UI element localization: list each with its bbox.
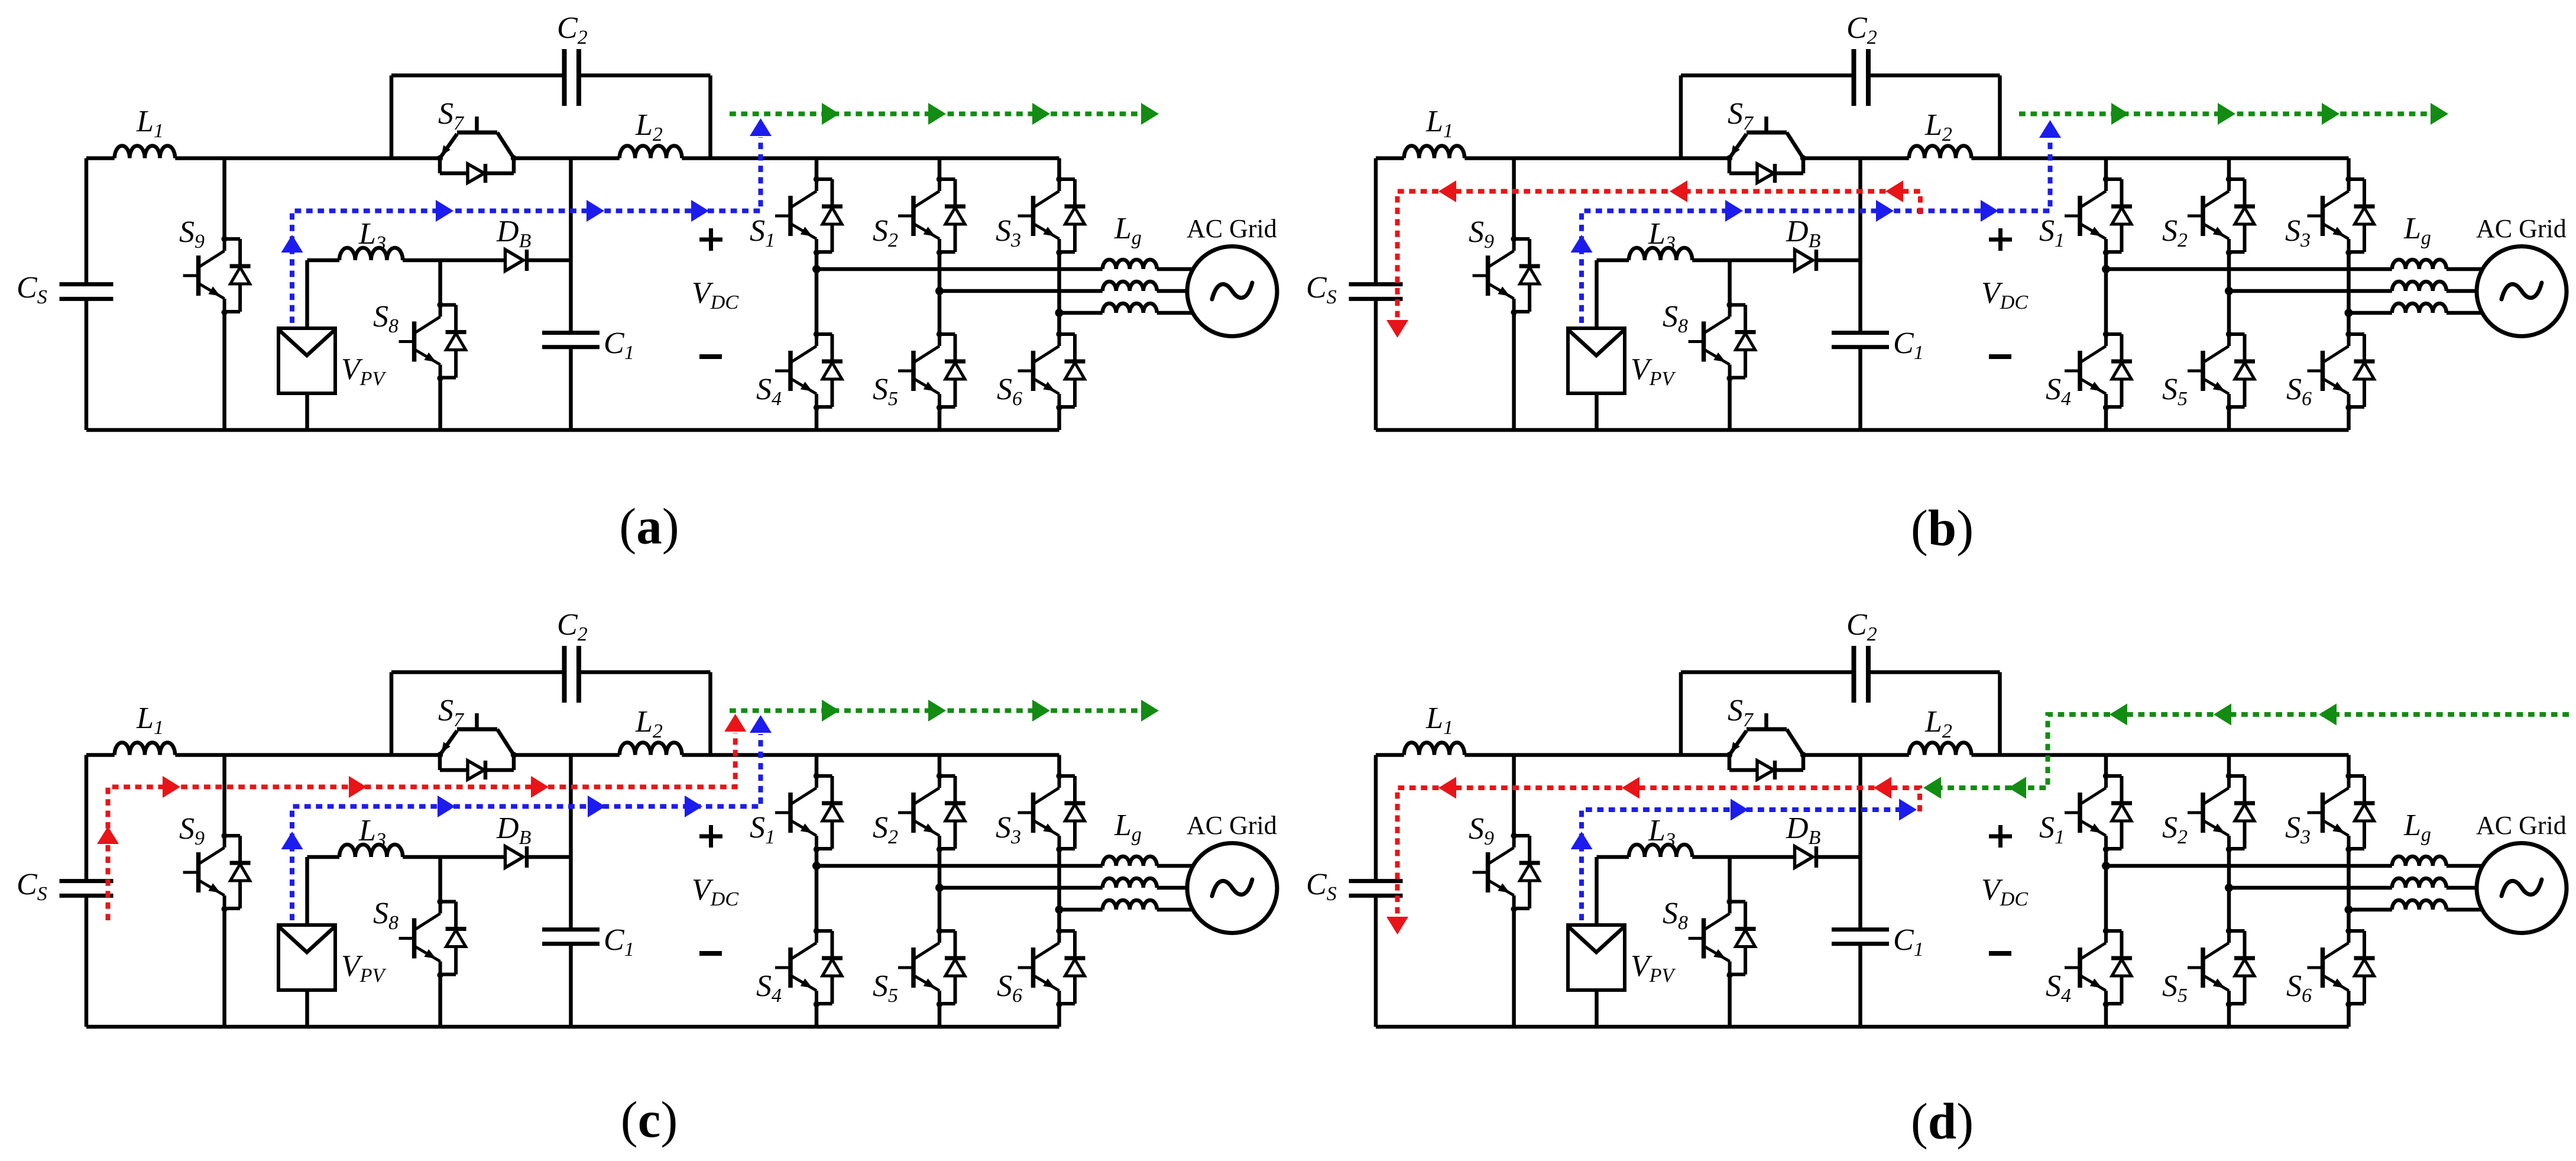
wire: S6 emitter lead (a) (1057, 408, 1061, 430)
wire: S3 collector lead (b) (2347, 159, 2351, 180)
wire: phase node to S5 (c) (938, 888, 942, 931)
wire: C2 loop top-right (c) (579, 670, 711, 674)
transistor S6 (a) (1018, 331, 1086, 410)
wire: S9 emitter lead (a) (222, 312, 226, 430)
wire: S4 emitter lead (d) (2104, 1004, 2108, 1027)
wire: C2 loop left leg (c) (390, 672, 394, 755)
label minus (b) (1989, 354, 2011, 359)
wire: phase node to S4 (a) (815, 269, 819, 334)
node: phase junction S2/S5 (b) (2225, 287, 2233, 295)
wire: L3 to DB (c) (403, 855, 505, 859)
wire: PV bottom lead (a) (305, 393, 309, 430)
wire: top rail L2 to bridge (d) (1971, 753, 2348, 757)
node: phase junction S2/S5 (a) (935, 287, 944, 295)
PV source VPV (d) (1568, 925, 1625, 990)
wire: C1 branch upper (b) (1858, 159, 1862, 333)
wire: S5 emitter lead (d) (2227, 1004, 2231, 1027)
wire: top rail L2 to bridge (b) (1971, 156, 2348, 160)
wire: top rail left segment (b) (1376, 156, 1404, 160)
wire: S3 emitter to phase node (d) (2347, 849, 2351, 910)
wire: phase node to S6 (a) (1057, 313, 1061, 334)
PV source VPV (b) (1568, 328, 1625, 393)
node: phase junction S1/S4 (a) (812, 265, 821, 273)
wire: phase node to S5 (a) (938, 291, 942, 334)
wire: phase line 2 (c) (939, 886, 1103, 890)
wire: top rail left segment (a) (86, 156, 115, 160)
wire: phase line 1 to grid (b) (2447, 267, 2496, 271)
wire: C1 branch upper (a) (569, 159, 573, 333)
wire: S1 collector lead (a) (815, 159, 819, 180)
wire: S9 collector lead (d) (1512, 755, 1516, 836)
wire: S3 collector lead (c) (1057, 755, 1061, 777)
current path (red): CS discharge loop (c) (97, 714, 746, 920)
node: phase junction S1/S4 (c) (812, 862, 821, 870)
wire: S6 emitter lead (c) (1057, 1004, 1061, 1027)
inductor Lg phase 2 (a) (1103, 282, 1157, 291)
inductor L2 (c) (620, 743, 682, 755)
transistor S6 (d) (2308, 928, 2375, 1007)
current path (red): CS charge loop (b) (1386, 180, 1920, 338)
wire: S3 emitter to phase node (a) (1057, 253, 1061, 313)
inductor Lg phase 3 (d) (2392, 900, 2447, 910)
wire: left branch lower (a) (85, 299, 89, 430)
transistor S7 with antiparallel diode (c) (437, 713, 517, 780)
wire: PV to L3 corner (d) (1597, 857, 1629, 925)
inductor Lg phase 3 (a) (1103, 303, 1157, 313)
wire: top rail L1 to S7 (c) (175, 753, 440, 757)
wire: phase node to S6 (b) (2347, 313, 2351, 334)
transistor S1 (b) (2065, 176, 2132, 256)
capacitor C2 (d) (1854, 646, 1869, 703)
diode DB (b) (1795, 250, 1817, 271)
wire: C2 loop top-right (b) (1868, 73, 2000, 77)
transistor S8 (c) (399, 898, 466, 978)
transistor S7 with antiparallel diode (a) (437, 117, 517, 183)
diode DB (a) (506, 250, 527, 271)
wire: S9 collector lead (b) (1512, 159, 1516, 240)
node: phase junction S3/S6 (c) (1055, 905, 1064, 914)
wire: C2 loop top-left (c) (391, 670, 565, 674)
wire: S3 emitter to phase node (c) (1057, 849, 1061, 910)
wire: C1 branch upper (c) (569, 755, 573, 930)
wire: L3 to DB (a) (403, 258, 505, 263)
wire: phase line 3 to grid (d) (2447, 908, 2496, 912)
wire: top rail S7 to L2 (d) (1803, 753, 1909, 757)
AC grid source (b) (2477, 247, 2567, 337)
inductor L3 (b) (1629, 248, 1692, 260)
svg-text:AC Grid: AC Grid (1187, 811, 1277, 840)
wire: phase line 3 to grid (c) (1157, 908, 1206, 912)
inductor L3 (d) (1629, 845, 1692, 857)
transistor S8 (a) (399, 302, 466, 381)
wire: S9 emitter lead (c) (222, 909, 226, 1027)
node: phase junction S1/S4 (d) (2102, 862, 2110, 870)
label plus (d) (1989, 825, 2012, 848)
wire: phase line 3 (c) (1059, 908, 1103, 912)
transistor S9 (d) (1473, 833, 1540, 912)
node: phase junction S3/S6 (d) (2345, 905, 2353, 914)
capacitor CS (c) (60, 881, 114, 896)
transistor S2 (c) (898, 773, 965, 852)
wire: S3 collector lead (a) (1057, 159, 1061, 180)
wire: S8 emitter lead (a) (438, 379, 442, 431)
wire: top rail L2 to bridge (c) (682, 753, 1059, 757)
svg-text:AC Grid: AC Grid (1187, 214, 1277, 243)
transistor S3 (c) (1018, 773, 1086, 852)
transistor S7 with antiparallel diode (d) (1726, 713, 1806, 780)
diode DB (d) (1795, 846, 1817, 868)
wire: top rail L1 to S7 (d) (1464, 753, 1729, 757)
wire: phase line 1 to grid (a) (1157, 267, 1206, 271)
transistor S7 with antiparallel diode (b) (1726, 117, 1806, 183)
wire: phase line 1 to grid (d) (2447, 864, 2496, 868)
transistor S9 (a) (183, 236, 251, 315)
wire: top rail S7 to L2 (a) (514, 156, 620, 160)
wire: bottom rail (d) (1376, 1025, 2349, 1029)
wire: left branch lower (d) (1374, 895, 1378, 1027)
wire: phase line 3 to grid (a) (1157, 311, 1206, 315)
PV source VPV (a) (278, 328, 335, 393)
wire: phase line 2 to grid (a) (1157, 289, 1206, 293)
wire: bottom rail (b) (1376, 428, 2349, 432)
capacitor C1 (b) (1832, 333, 1889, 347)
transistor S5 (c) (898, 928, 965, 1007)
wire: S1 emitter to phase node (c) (815, 849, 819, 866)
wire: S2 collector lead (d) (2227, 755, 2231, 777)
wire: bottom rail (c) (86, 1025, 1059, 1029)
wire: top rail L1 to S7 (a) (175, 156, 440, 160)
wire: PV to L3 corner (b) (1597, 260, 1629, 328)
current path (blue): PV boost loop (d) (1571, 799, 1917, 921)
label minus (c) (699, 951, 722, 956)
transistor S4 (d) (2065, 928, 2132, 1007)
wire: DB to C1 node (a) (527, 258, 571, 263)
transistor S8 (d) (1689, 898, 1756, 978)
wire: PV bottom lead (d) (1595, 990, 1599, 1027)
inductor Lg phase 1 (a) (1103, 260, 1157, 269)
wire: C2 loop right leg (c) (708, 672, 712, 755)
wire: C1 branch lower (a) (569, 347, 573, 430)
wire: phase line 3 (d) (2349, 908, 2392, 912)
wire: phase line 1 (c) (816, 864, 1103, 868)
wire: left branch upper (d) (1374, 755, 1378, 881)
transistor S5 (a) (898, 331, 965, 410)
wire: C2 loop right leg (d) (1998, 672, 2002, 755)
current path (blue): PV boost loop (a) (281, 118, 772, 323)
inductor L2 (b) (1909, 146, 1972, 159)
transistor S3 (b) (2308, 176, 2375, 256)
label plus (b) (1989, 228, 2012, 251)
current path (green): from AC grid (d) (1923, 704, 2569, 799)
transistor S2 (b) (2188, 176, 2255, 256)
wire: phase line 2 to grid (c) (1157, 886, 1206, 890)
label plus (c) (699, 825, 722, 848)
wire: top rail S7 to L2 (c) (514, 753, 620, 757)
wire: S2 emitter to phase node (b) (2227, 253, 2231, 291)
wire: top rail S7 to L2 (b) (1803, 156, 1909, 160)
wire: S9 emitter lead (d) (1512, 909, 1516, 1027)
inductor Lg phase 2 (c) (1103, 878, 1157, 888)
wire: C1 branch upper (d) (1858, 755, 1862, 930)
wire: S6 emitter lead (d) (2347, 1004, 2351, 1027)
wire: C2 loop left leg (b) (1679, 76, 1683, 159)
wire: phase node to S4 (b) (2104, 269, 2108, 334)
wire: phase line 3 (a) (1059, 311, 1103, 315)
wire: PV to L3 corner (a) (307, 260, 340, 328)
wire: S8 emitter lead (b) (1728, 379, 1732, 431)
inductor Lg phase 2 (d) (2392, 878, 2447, 888)
wire: phase line 1 (d) (2106, 864, 2392, 868)
AC grid source (a) (1187, 247, 1277, 337)
wire: S9 collector lead (a) (222, 159, 226, 240)
svg-text:(d): (d) (1911, 1092, 1974, 1150)
transistor S1 (c) (775, 773, 843, 852)
capacitor C2 (a) (565, 49, 579, 106)
wire: S5 emitter lead (b) (2227, 408, 2231, 430)
node: phase junction S1/S4 (b) (2102, 265, 2110, 273)
inductor Lg phase 2 (b) (2392, 282, 2447, 291)
wire: phase line 2 to grid (d) (2447, 886, 2496, 890)
wire: PV to L3 corner (c) (307, 857, 340, 925)
wire: phase node to S4 (c) (815, 866, 819, 931)
wire: C2 loop top-right (a) (579, 73, 711, 77)
transistor S3 (a) (1018, 176, 1086, 256)
wire: S2 collector lead (c) (938, 755, 942, 777)
transistor S4 (a) (775, 331, 843, 410)
wire: S4 emitter lead (b) (2104, 408, 2108, 430)
diode DB (c) (506, 846, 527, 868)
wire: phase line 1 to grid (c) (1157, 864, 1206, 868)
inductor Lg phase 3 (b) (2392, 303, 2447, 313)
current path (blue): PV boost loop (c) (281, 715, 772, 920)
transistor S9 (b) (1473, 236, 1540, 315)
wire: S1 emitter to phase node (d) (2104, 849, 2108, 866)
wire: phase line 3 (b) (2349, 311, 2392, 315)
transistor S1 (d) (2065, 773, 2132, 852)
node: phase junction S3/S6 (b) (2345, 309, 2353, 317)
inductor Lg phase 1 (b) (2392, 260, 2447, 269)
current path (green): to AC grid (c) (730, 700, 1159, 722)
wire: phase line 2 (a) (939, 289, 1103, 293)
wire: S1 collector lead (c) (815, 755, 819, 777)
wire: left branch upper (a) (85, 159, 89, 284)
svg-text:AC Grid: AC Grid (2476, 811, 2567, 840)
wire: phase node to S6 (c) (1057, 910, 1061, 931)
inductor L3 (a) (339, 248, 403, 260)
wire: L3 to DB (d) (1692, 855, 1794, 859)
wire: top rail left segment (d) (1376, 753, 1404, 757)
wire: C2 loop left leg (d) (1679, 672, 1683, 755)
current path (blue): PV boost loop (b) (1571, 120, 2062, 323)
wire: C2 loop left leg (a) (390, 76, 394, 159)
label minus (d) (1989, 951, 2011, 956)
svg-text:(a): (a) (619, 497, 679, 555)
inductor L2 (a) (620, 145, 682, 158)
wire: PV bottom lead (c) (305, 990, 309, 1027)
wire: S1 emitter to phase node (a) (815, 253, 819, 269)
current path (green): to AC grid (b) (2019, 103, 2448, 125)
wire: S3 collector lead (d) (2347, 755, 2351, 777)
wire: S2 emitter to phase node (c) (938, 849, 942, 888)
wire: PV bottom lead (b) (1595, 393, 1599, 430)
wire: S8 emitter lead (c) (438, 975, 442, 1027)
wire: top rail left segment (c) (86, 753, 115, 757)
wire: phase node to S6 (d) (2347, 910, 2351, 931)
wire: C1 branch lower (b) (1858, 347, 1862, 430)
transistor S6 (b) (2308, 331, 2375, 410)
wire: phase line 2 (d) (2229, 886, 2392, 890)
wire: left branch lower (c) (85, 895, 89, 1027)
wire: L3 to DB (b) (1692, 258, 1794, 263)
wire: DB to C1 node (d) (1816, 855, 1861, 859)
svg-text:AC Grid: AC Grid (2476, 214, 2567, 243)
wire: phase line 2 (b) (2229, 289, 2392, 293)
wire: C2 loop top-left (d) (1681, 670, 1854, 674)
wire: C2 loop top-left (a) (391, 73, 565, 77)
wire: bottom rail (a) (86, 428, 1059, 432)
AC grid source (d) (2477, 843, 2567, 933)
wire: left branch lower (b) (1374, 299, 1378, 430)
wire: S2 collector lead (a) (938, 159, 942, 180)
wire: S9 collector lead (c) (222, 755, 226, 836)
wire: S2 emitter to phase node (d) (2227, 849, 2231, 888)
wire: C2 loop top-left (b) (1681, 73, 1854, 77)
inductor Lg phase 1 (d) (2392, 856, 2447, 866)
node: phase junction S2/S5 (c) (935, 884, 944, 892)
PV source VPV (c) (278, 925, 335, 990)
wire: phase line 3 to grid (b) (2447, 311, 2496, 315)
wire: DB to C1 node (c) (527, 855, 571, 859)
wire: phase line 1 (a) (816, 267, 1103, 271)
svg-text:(c): (c) (621, 1091, 678, 1148)
wire: S8 collector lead (b) (1728, 260, 1732, 305)
inductor L3 (c) (339, 845, 403, 857)
label plus (a) (699, 228, 722, 251)
transistor S4 (c) (775, 928, 843, 1007)
svg-text:(b): (b) (1911, 499, 1974, 557)
wire: left branch upper (c) (85, 755, 89, 881)
wire: phase line 2 to grid (b) (2447, 289, 2496, 293)
capacitor C1 (d) (1832, 930, 1889, 944)
AC grid source (c) (1187, 843, 1277, 933)
transistor S3 (d) (2308, 773, 2375, 852)
wire: top rail L1 to S7 (b) (1464, 156, 1729, 160)
wire: S4 emitter lead (a) (815, 408, 819, 430)
wire: DB to C1 node (b) (1816, 258, 1861, 263)
wire: phase node to S5 (d) (2227, 888, 2231, 931)
wire: S4 emitter lead (c) (815, 1004, 819, 1027)
wire: C2 loop right leg (a) (708, 76, 712, 159)
wire: C2 loop top-right (d) (1868, 670, 2000, 674)
wire: S9 emitter lead (b) (1512, 312, 1516, 430)
wire: S3 emitter to phase node (b) (2347, 253, 2351, 313)
wire: S1 collector lead (b) (2104, 159, 2108, 180)
wire: C1 branch lower (d) (1858, 944, 1862, 1027)
transistor S8 (b) (1689, 302, 1756, 381)
inductor L1 (c) (115, 743, 175, 755)
wire: phase node to S4 (d) (2104, 866, 2108, 931)
capacitor C2 (b) (1854, 49, 1869, 106)
capacitor CS (b) (1349, 284, 1403, 299)
wire: S6 emitter lead (b) (2347, 408, 2351, 430)
transistor S5 (b) (2188, 331, 2255, 410)
wire: S5 emitter lead (c) (938, 1004, 942, 1027)
current path (red): to CS loop (d) (1386, 777, 1920, 935)
transistor S4 (b) (2065, 331, 2132, 410)
transistor S2 (a) (898, 176, 965, 256)
node: phase junction S2/S5 (d) (2225, 884, 2233, 892)
wire: S8 emitter lead (d) (1728, 975, 1732, 1027)
wire: S5 emitter lead (a) (938, 408, 942, 430)
inductor L2 (d) (1909, 743, 1972, 755)
label minus (a) (699, 354, 722, 359)
wire: left branch upper (b) (1374, 159, 1378, 284)
transistor S5 (d) (2188, 928, 2255, 1007)
transistor S2 (d) (2188, 773, 2255, 852)
wire: S8 collector lead (a) (438, 260, 442, 305)
inductor L1 (a) (115, 146, 175, 159)
wire: C2 loop right leg (b) (1998, 76, 2002, 159)
transistor S1 (a) (775, 176, 843, 256)
inductor Lg phase 3 (c) (1103, 900, 1157, 910)
wire: S1 emitter to phase node (b) (2104, 253, 2108, 269)
wire: S1 collector lead (d) (2104, 755, 2108, 777)
capacitor C2 (c) (565, 646, 579, 703)
wire: C1 branch lower (c) (569, 944, 573, 1027)
inductor Lg phase 1 (c) (1103, 856, 1157, 866)
wire: S2 emitter to phase node (a) (938, 253, 942, 291)
capacitor C1 (a) (542, 333, 600, 347)
inductor L1 (b) (1404, 145, 1464, 158)
node: phase junction S3/S6 (a) (1055, 309, 1064, 317)
inductor L1 (d) (1404, 742, 1464, 755)
wire: phase node to S5 (b) (2227, 291, 2231, 334)
capacitor CS (a) (60, 284, 114, 299)
capacitor C1 (c) (542, 930, 600, 944)
wire: S2 collector lead (b) (2227, 159, 2231, 180)
capacitor CS (d) (1349, 881, 1403, 896)
transistor S6 (c) (1018, 928, 1086, 1007)
transistor S9 (c) (183, 833, 251, 912)
current path (green): to AC grid (a) (730, 103, 1159, 125)
wire: phase line 1 (b) (2106, 267, 2392, 271)
wire: top rail L2 to bridge (a) (682, 156, 1059, 160)
wire: S8 collector lead (c) (438, 857, 442, 902)
wire: S8 collector lead (d) (1728, 857, 1732, 902)
